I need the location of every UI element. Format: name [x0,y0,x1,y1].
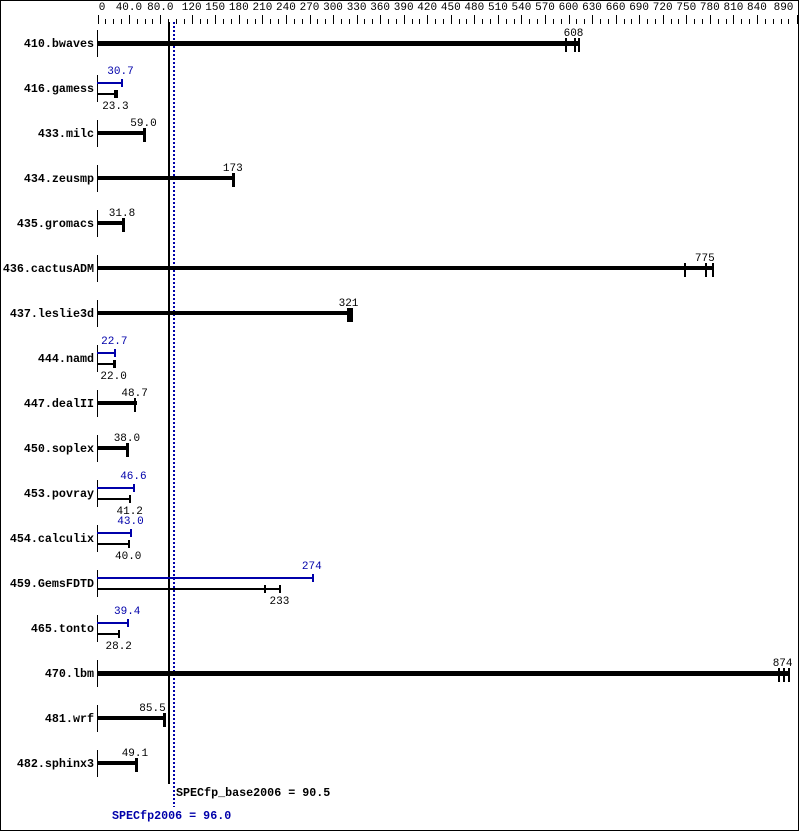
410.bwaves value label 608 [564,29,584,40]
482.sphinx3 base bar (49.1) [97,761,137,765]
416.gamess base bar (23.3) [97,93,118,95]
454.calculix base run marker tick [128,540,130,548]
433.milc value label 59.0 [130,119,156,130]
453.povray peak value label 46.6 [120,472,146,483]
410.bwaves run marker tick [574,38,576,52]
450.soplex run marker tick [126,443,129,457]
benchmark row 447.dealII [0,398,94,410]
benchmark row 436.cactusADM [0,263,94,275]
436.cactusADM axis tick [97,255,98,282]
447.dealII base bar (48.7) [97,401,137,405]
454.calculix base value label 40.0 [115,552,141,563]
459.GemsFDTD base value label 233 [270,597,290,608]
434.zeusmp axis tick [97,165,98,192]
465.tonto base bar (28.2) [97,633,120,635]
459.GemsFDTD axis tick [97,570,98,597]
SPECfp_base2006 reference line (90.5) [168,22,170,784]
benchmark row 435.gromacs [0,218,94,230]
416.gamess axis tick [97,75,98,102]
410.bwaves run marker tick [578,38,580,52]
481.wrf base bar (85.5) [97,716,166,720]
454.calculix peak bar (blue, 43.0) [97,532,132,534]
470.lbm value label 874 [773,659,793,670]
444.namd peak run marker tick [114,349,116,357]
436.cactusADM run marker tick [705,263,707,277]
benchmark row 410.bwaves [0,38,94,50]
436.cactusADM run marker tick [712,263,714,277]
benchmark row 453.povray [0,488,94,500]
benchmark row 482.sphinx3 [0,758,94,770]
444.namd base bar (22.0) [97,363,116,365]
437.leslie3d run marker tick [347,308,349,322]
437.leslie3d base bar (321) [97,311,353,315]
465.tonto base value label 28.2 [106,642,132,653]
482.sphinx3 value label 49.1 [122,749,148,760]
SPECfp2006 peak reference line (96.0, blue dotted) [173,22,175,807]
433.milc base bar (59.0) [97,131,145,135]
benchmark row 459.GemsFDTD [0,578,94,590]
x axis ruler labels [99,3,106,14]
453.povray base bar (41.2) [97,498,131,500]
x axis ruler ticks [98,15,99,24]
470.lbm axis tick [97,660,98,687]
416.gamess peak value label 30.7 [107,67,133,78]
benchmark row 465.tonto [0,623,94,635]
444.namd axis tick [97,345,98,372]
436.cactusADM value label 775 [695,254,715,265]
459.GemsFDTD base bar (233) [97,588,281,590]
benchmark row 437.leslie3d [0,308,94,320]
454.calculix base bar (40.0) [97,543,130,545]
433.milc run marker tick [143,128,146,142]
benchmark row 433.milc [0,128,94,140]
459.GemsFDTD base run marker tick [264,585,266,593]
470.lbm run marker tick [788,668,790,682]
465.tonto peak value label 39.4 [114,607,140,618]
410.bwaves run marker tick [565,38,567,52]
453.povray peak bar (blue, 46.6) [97,487,135,489]
434.zeusmp base bar (173) [97,176,235,180]
454.calculix axis tick [97,525,98,552]
454.calculix peak run marker tick [130,529,132,537]
450.soplex value label 38.0 [114,434,140,445]
481.wrf run marker tick [163,713,166,727]
410.bwaves axis tick [97,30,98,57]
benchmark row 450.soplex [0,443,94,455]
border frame [0,0,799,1]
SPECfp_base2006 metric text [176,787,330,799]
433.milc axis tick [97,120,98,147]
459.GemsFDTD peak bar (blue, 274) [97,577,314,579]
447.dealII axis tick [97,390,98,417]
444.namd peak bar (blue, 22.7) [97,352,116,354]
453.povray peak run marker tick [133,484,135,492]
465.tonto base run marker tick [118,630,120,638]
459.GemsFDTD peak value label 274 [302,562,322,573]
437.leslie3d axis tick [97,300,98,327]
444.namd base run marker tick [113,360,116,368]
482.sphinx3 run marker tick [135,758,138,772]
482.sphinx3 axis tick [97,750,98,777]
435.gromacs value label 31.8 [109,209,135,220]
benchmark row 470.lbm [0,668,94,680]
444.namd peak value label 22.7 [101,337,127,348]
447.dealII value label 48.7 [121,389,147,400]
434.zeusmp value label 173 [223,164,243,175]
450.soplex base bar (38.0) [97,446,128,450]
437.leslie3d run marker tick [349,308,351,322]
416.gamess peak run marker tick [121,79,123,87]
465.tonto peak run marker tick [127,619,129,627]
410.bwaves base bar (608) [97,41,580,46]
437.leslie3d value label 321 [339,299,359,310]
465.tonto axis tick [97,615,98,642]
SPECfp2006 metric text (blue) [112,810,231,822]
470.lbm run marker tick [778,668,780,682]
453.povray axis tick [97,480,98,507]
benchmark row 481.wrf [0,713,94,725]
454.calculix peak value label 43.0 [117,517,143,528]
416.gamess base run marker tick [114,90,118,98]
435.gromacs base bar (31.8) [97,221,124,225]
benchmark row 416.gamess [0,83,94,95]
435.gromacs axis tick [97,210,98,237]
437.leslie3d run marker tick [351,308,353,322]
459.GemsFDTD peak run marker tick [312,574,314,582]
481.wrf axis tick [97,705,98,732]
459.GemsFDTD base run marker tick [279,585,281,593]
470.lbm run marker tick [783,668,785,682]
447.dealII run marker tick [134,398,136,412]
benchmark row 444.namd [0,353,94,365]
434.zeusmp run marker tick [232,173,235,187]
444.namd base value label 22.0 [100,372,126,383]
benchmark row 454.calculix [0,533,94,545]
453.povray base run marker tick [129,495,131,503]
436.cactusADM run marker tick [684,263,686,277]
benchmark row 434.zeusmp [0,173,94,185]
416.gamess base value label 23.3 [102,102,128,113]
416.gamess peak bar (blue, 30.7) [97,82,123,84]
435.gromacs run marker tick [122,218,125,232]
450.soplex axis tick [97,435,98,462]
465.tonto peak bar (blue, 39.4) [97,622,129,624]
436.cactusADM base bar (775) [97,266,714,270]
470.lbm base bar (874) [97,671,790,676]
481.wrf value label 85.5 [139,704,165,715]
453.povray base value label 41.2 [117,507,143,518]
